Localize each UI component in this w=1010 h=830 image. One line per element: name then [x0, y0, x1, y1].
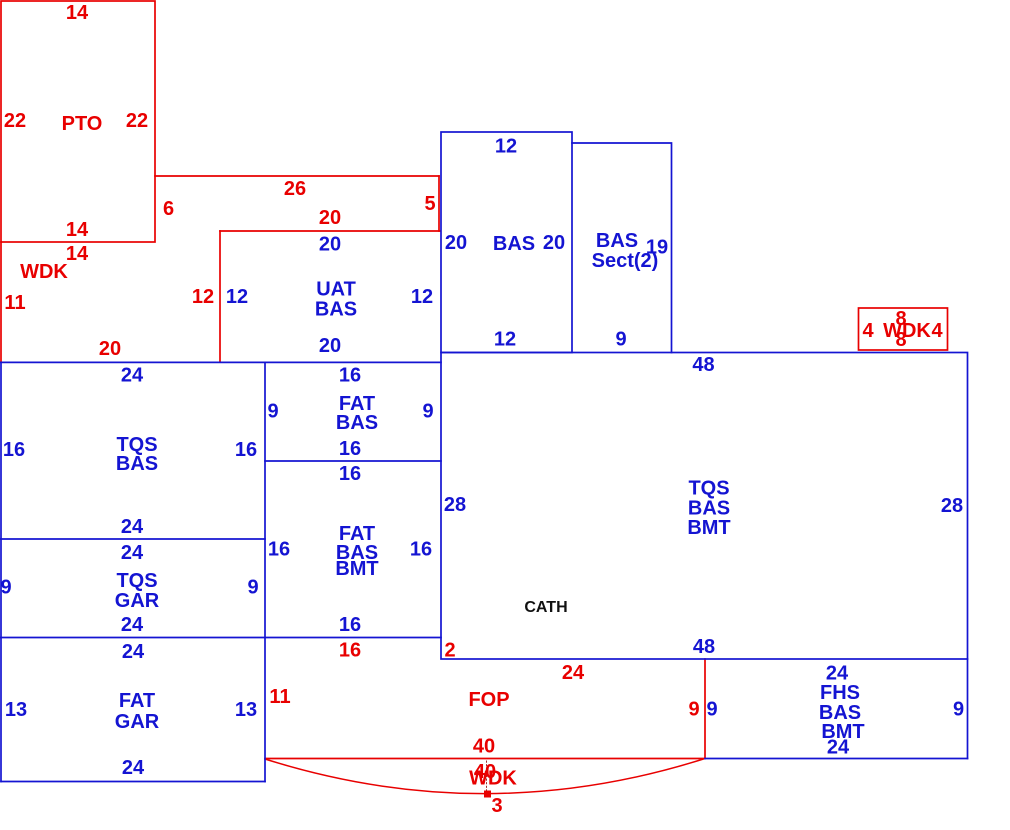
svg-text:16: 16 — [3, 439, 25, 461]
room FAT GAR bottom wall — [1, 781, 265, 783]
svg-text:14: 14 — [66, 243, 89, 265]
svg-text:4: 4 — [862, 320, 874, 342]
svg-text:20: 20 — [445, 232, 467, 254]
svg-text:12: 12 — [226, 286, 248, 308]
svg-text:16: 16 — [339, 614, 361, 636]
svg-text:13: 13 — [235, 699, 257, 721]
bay WDK anchor dot — [484, 791, 491, 798]
svg-text:12: 12 — [411, 286, 433, 308]
svg-text:28: 28 — [444, 494, 466, 516]
svg-text:5: 5 — [424, 193, 435, 215]
svg-text:GAR: GAR — [115, 590, 160, 612]
svg-text:20: 20 — [319, 207, 341, 229]
svg-text:FHS: FHS — [820, 682, 860, 704]
svg-text:8: 8 — [895, 329, 906, 351]
svg-text:9: 9 — [0, 577, 11, 599]
wall TQS GAR bottom / FAT BAS BMT bottom — [0, 637, 441, 639]
svg-text:19: 19 — [646, 237, 668, 259]
svg-text:24: 24 — [122, 641, 145, 663]
svg-text:WDK: WDK — [20, 261, 68, 283]
svg-text:11: 11 — [269, 686, 290, 708]
room TQS BAS BMT outline — [441, 353, 968, 660]
svg-text:24: 24 — [122, 757, 145, 779]
wall left exterior — [0, 362, 2, 781]
room BAS outline — [441, 132, 572, 353]
svg-text:TQS: TQS — [116, 570, 157, 592]
svg-text:WDK: WDK — [469, 768, 517, 790]
svg-text:9: 9 — [953, 699, 964, 721]
svg-text:24: 24 — [121, 516, 144, 538]
wall 26 segment — [155, 175, 439, 177]
svg-text:13: 13 — [5, 699, 27, 721]
svg-text:9: 9 — [247, 577, 258, 599]
svg-text:3: 3 — [491, 795, 502, 817]
svg-text:BMT: BMT — [335, 558, 378, 580]
room FOP bottom wall — [265, 758, 705, 760]
wall center vertical — [264, 362, 266, 781]
room PTO outline — [1, 1, 155, 242]
svg-text:11: 11 — [4, 292, 25, 314]
svg-text:9: 9 — [706, 699, 717, 721]
svg-text:CATH: CATH — [524, 599, 567, 616]
svg-text:9: 9 — [267, 401, 278, 423]
svg-text:24: 24 — [121, 614, 144, 636]
svg-text:FOP: FOP — [468, 689, 509, 711]
svg-text:22: 22 — [126, 110, 148, 132]
wall 5 segment — [438, 176, 440, 231]
bay WDK arc — [265, 759, 705, 794]
svg-text:24: 24 — [562, 662, 585, 684]
wall TQS BAS bottom — [0, 538, 265, 540]
room UAT BAS top wall — [220, 230, 440, 232]
svg-text:9: 9 — [688, 699, 699, 721]
svg-text:20: 20 — [319, 234, 341, 256]
svg-text:24: 24 — [121, 365, 144, 387]
svg-text:BAS: BAS — [596, 230, 638, 252]
svg-text:14: 14 — [66, 2, 89, 24]
svg-text:16: 16 — [339, 438, 361, 460]
svg-text:28: 28 — [941, 495, 963, 517]
svg-text:48: 48 — [693, 636, 715, 658]
svg-text:14: 14 — [66, 219, 89, 241]
svg-text:BAS: BAS — [336, 412, 378, 434]
svg-text:BAS: BAS — [315, 299, 357, 321]
svg-text:9: 9 — [422, 401, 433, 423]
svg-text:16: 16 — [410, 539, 432, 561]
svg-text:6: 6 — [163, 198, 174, 220]
svg-text:24: 24 — [121, 542, 144, 564]
svg-text:BAS: BAS — [493, 233, 535, 255]
room WDK left wall — [0, 242, 2, 362]
svg-text:12: 12 — [494, 329, 516, 351]
room WDK right (deck) outline — [859, 308, 948, 350]
svg-text:20: 20 — [543, 232, 565, 254]
wall WDK/TQS-BAS top — [0, 361, 441, 363]
svg-text:26: 26 — [284, 178, 306, 200]
svg-text:GAR: GAR — [115, 711, 160, 733]
svg-text:16: 16 — [235, 439, 257, 461]
svg-text:TQS: TQS — [688, 478, 729, 500]
svg-text:20: 20 — [99, 338, 121, 360]
room FOP right wall — [704, 659, 706, 759]
bay WDK dotted riser — [486, 761, 488, 790]
svg-text:48: 48 — [692, 354, 714, 376]
svg-text:16: 16 — [268, 539, 290, 561]
room BAS Sect(2) outline — [572, 143, 672, 353]
svg-text:FAT: FAT — [119, 690, 155, 712]
svg-text:WDK: WDK — [883, 320, 931, 342]
svg-text:16: 16 — [339, 365, 361, 387]
svg-text:9: 9 — [615, 329, 626, 351]
room FHS BAS BMT right wall — [967, 659, 969, 759]
svg-text:22: 22 — [4, 110, 26, 132]
svg-text:40: 40 — [473, 736, 495, 758]
svg-text:2: 2 — [444, 640, 455, 662]
svg-text:PTO: PTO — [62, 113, 103, 135]
svg-text:24: 24 — [827, 737, 850, 759]
svg-text:BMT: BMT — [687, 517, 730, 539]
svg-text:16: 16 — [339, 640, 361, 662]
svg-text:16: 16 — [339, 463, 361, 485]
svg-text:20: 20 — [319, 335, 341, 357]
room FHS BAS BMT bottom wall — [705, 758, 968, 760]
svg-text:12: 12 — [495, 136, 517, 158]
svg-text:UAT: UAT — [316, 279, 356, 301]
room UAT BAS left wall — [219, 231, 221, 362]
wall FAT BAS bottom — [265, 460, 441, 462]
svg-text:4: 4 — [931, 320, 943, 342]
svg-text:12: 12 — [192, 286, 214, 308]
svg-text:BAS: BAS — [116, 453, 158, 475]
